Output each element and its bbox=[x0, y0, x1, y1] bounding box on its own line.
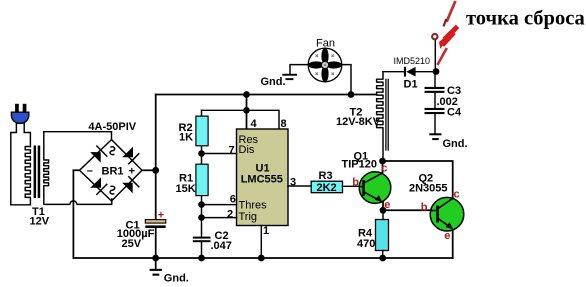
svg-text:точка сброса: точка сброса bbox=[466, 7, 585, 29]
svg-text:1: 1 bbox=[263, 225, 269, 237]
svg-text:Dis: Dis bbox=[239, 144, 255, 156]
svg-text:8: 8 bbox=[281, 118, 287, 130]
svg-text:IMD5210: IMD5210 bbox=[394, 56, 431, 66]
svg-text:Gnd.: Gnd. bbox=[443, 138, 468, 150]
svg-text:3: 3 bbox=[290, 176, 296, 188]
svg-text:2N3055: 2N3055 bbox=[409, 183, 448, 195]
svg-text:b: b bbox=[421, 201, 428, 213]
svg-text:7: 7 bbox=[229, 144, 235, 156]
svg-text:+: + bbox=[129, 165, 135, 177]
svg-text:LMC555: LMC555 bbox=[241, 174, 283, 186]
svg-text:TIP120: TIP120 bbox=[342, 159, 377, 171]
svg-text:4: 4 bbox=[251, 118, 258, 130]
svg-text:R3: R3 bbox=[319, 170, 333, 182]
svg-text:c: c bbox=[454, 188, 460, 200]
svg-text:12V-8KV: 12V-8KV bbox=[336, 116, 381, 128]
svg-text:b: b bbox=[352, 177, 359, 189]
svg-text:4A-50PIV: 4A-50PIV bbox=[88, 121, 136, 133]
svg-text:Gnd.: Gnd. bbox=[164, 273, 189, 285]
svg-text:.047: .047 bbox=[211, 240, 232, 252]
svg-text:1K: 1K bbox=[179, 132, 193, 144]
svg-text:e: e bbox=[444, 230, 450, 242]
svg-text:Gnd.: Gnd. bbox=[261, 76, 286, 88]
svg-text:D1: D1 bbox=[404, 79, 418, 91]
svg-text:C4: C4 bbox=[447, 107, 462, 119]
svg-text:–: – bbox=[87, 165, 93, 177]
svg-text:2: 2 bbox=[227, 209, 233, 221]
svg-text:470: 470 bbox=[357, 238, 375, 250]
svg-text:12V: 12V bbox=[30, 216, 50, 228]
svg-text:6: 6 bbox=[230, 194, 236, 206]
svg-text:+: + bbox=[158, 210, 164, 222]
svg-text:BR1: BR1 bbox=[102, 166, 124, 178]
svg-text:15K: 15K bbox=[176, 183, 196, 195]
svg-text:2K2: 2K2 bbox=[317, 182, 337, 194]
svg-text:25V: 25V bbox=[122, 238, 142, 250]
svg-text:c: c bbox=[381, 162, 387, 174]
svg-text:Trig: Trig bbox=[239, 211, 258, 223]
svg-text:Thres: Thres bbox=[239, 200, 268, 212]
